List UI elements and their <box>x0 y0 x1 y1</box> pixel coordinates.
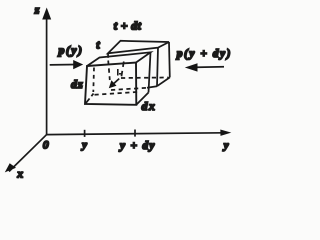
box B bottom-right oblique edge <box>157 77 170 86</box>
svg-text:p(y + dy): p(y + dy) <box>176 48 232 60</box>
box B front-left edge visible stub <box>107 53 109 58</box>
x-axis <box>5 135 47 173</box>
svg-text:dx: dx <box>142 99 157 113</box>
box F hidden bottom-left oblique edge (dashed) <box>86 94 94 104</box>
box F hidden back-left edge (dashed) <box>92 68 95 93</box>
pressure arrow p(y) <box>50 60 83 69</box>
pressure arrow p(y+dy) <box>185 63 224 71</box>
box B back-right edge <box>168 42 171 77</box>
box B (element at t+dt): top face <box>108 41 169 54</box>
box B hidden front-left edge (dashed) <box>108 61 110 81</box>
box F bottom-right oblique edge <box>136 93 148 105</box>
box F top face <box>87 52 151 66</box>
box F back-right edge <box>149 52 151 92</box>
svg-text:y: y <box>222 139 229 151</box>
y-axis <box>47 130 232 136</box>
box F hidden back-bottom edge (dashed) <box>95 92 141 95</box>
box B hidden back-left edge (dashed) <box>121 62 124 78</box>
tick y <box>84 130 86 137</box>
box B front-bottom visible segment <box>147 86 157 88</box>
svg-text:y: y <box>80 139 87 151</box>
svg-text:x: x <box>16 166 23 180</box>
svg-text:z: z <box>34 3 40 17</box>
box B front-right edge <box>157 48 158 87</box>
tick y+dy <box>134 130 136 137</box>
interior small dash near corner <box>119 73 123 75</box>
svg-text:dz: dz <box>71 77 84 91</box>
svg-text:y + dy: y + dy <box>118 140 156 152</box>
displacement arrow inside element <box>109 79 119 89</box>
svg-text:t + dt: t + dt <box>114 19 142 33</box>
box B hidden back-bottom edge (dashed) <box>121 77 169 80</box>
box F (element at t): front face <box>85 63 136 105</box>
interior short dash <box>117 69 119 76</box>
box B hidden front-bottom edge (dashed) <box>111 88 147 90</box>
svg-text:0: 0 <box>43 138 49 152</box>
z-axis <box>42 8 51 135</box>
svg-text:p(y): p(y) <box>58 43 84 57</box>
